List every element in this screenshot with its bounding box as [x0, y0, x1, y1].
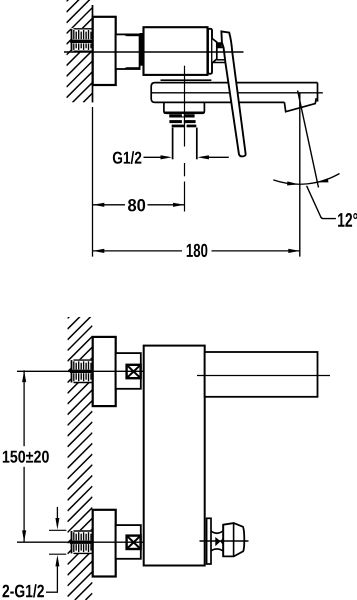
shower outlet tube — [172, 128, 174, 160]
spout arm (side view) — [151, 83, 317, 103]
bottom inlet centerline — [17, 541, 144, 543]
angle arrow at tilted line — [317, 178, 329, 182]
outlet axis centerline (dashed) — [184, 66, 186, 147]
union cross symbol (top) — [127, 365, 141, 378]
union connector (plan, top) — [116, 353, 141, 389]
spout axis centerline — [151, 92, 323, 94]
base plate line — [161, 79, 212, 81]
handle flange plate — [207, 518, 211, 564]
wall face line (side view) — [92, 5, 94, 102]
spray nozzle (12 deg face) — [284, 98, 316, 112]
dim 80 line — [93, 204, 125, 206]
dim G1/2 right arrow — [204, 156, 229, 158]
handle hub lines — [217, 42, 223, 44]
wall hatch (side view) — [67, 0, 93, 102]
label G1/2 — [113, 151, 141, 164]
threaded wall pipe (side view inlet) — [71, 28, 94, 52]
angle arc — [273, 174, 339, 185]
label 2-G1/2 — [2, 584, 43, 597]
pipe dim ticks — [49, 529, 66, 531]
valve body (side view) — [144, 27, 208, 75]
label 12deg — [338, 213, 357, 227]
pipe dim arrows — [56, 507, 58, 522]
locknut ring (dark) — [140, 33, 144, 66]
angle arrow at vertical line — [287, 181, 299, 185]
escutcheon flange (side view) — [93, 17, 116, 85]
cartridge cap ring — [208, 29, 212, 74]
dim 150 line — [23, 370, 25, 446]
escutcheon flange (plan, bottom) — [93, 510, 116, 577]
handle knob cap — [223, 523, 244, 556]
label 80 — [128, 199, 145, 211]
12deg leader line — [307, 186, 336, 219]
escutcheon flange (plan, top) — [93, 337, 116, 406]
outlet thread rings — [169, 114, 194, 116]
cartridge dome — [212, 39, 216, 63]
dim 180 line — [93, 250, 182, 252]
handle lever — [221, 31, 245, 156]
threaded wall pipe (plan, top inlet) — [71, 359, 93, 382]
threaded wall pipe (plan, bottom inlet) — [71, 530, 93, 553]
union cross symbol (bottom) — [127, 536, 141, 549]
wall hatch (plan view) — [68, 295, 93, 600]
nozzle 12deg tilted line — [298, 91, 319, 188]
2-G1/2 leader — [46, 591, 58, 593]
handle neck curves — [211, 531, 223, 533]
top inlet centerline — [17, 370, 144, 372]
handle neck dark wedge — [215, 537, 220, 546]
label 180 — [187, 244, 208, 257]
label 150pm20 — [3, 451, 49, 463]
union connector (plan, bottom) — [116, 525, 141, 559]
outlet shoulder — [164, 102, 205, 113]
valve axis centerline — [64, 51, 244, 53]
spout (plan view) — [205, 352, 318, 397]
S-union connector (side view) — [116, 34, 140, 69]
handle knob centerline — [200, 540, 249, 542]
dim G1/2 left arrow — [144, 156, 166, 158]
spout centerline (plan) — [197, 375, 330, 377]
mixer body (plan view) — [144, 346, 205, 566]
nozzle vertical reference line — [299, 94, 301, 257]
